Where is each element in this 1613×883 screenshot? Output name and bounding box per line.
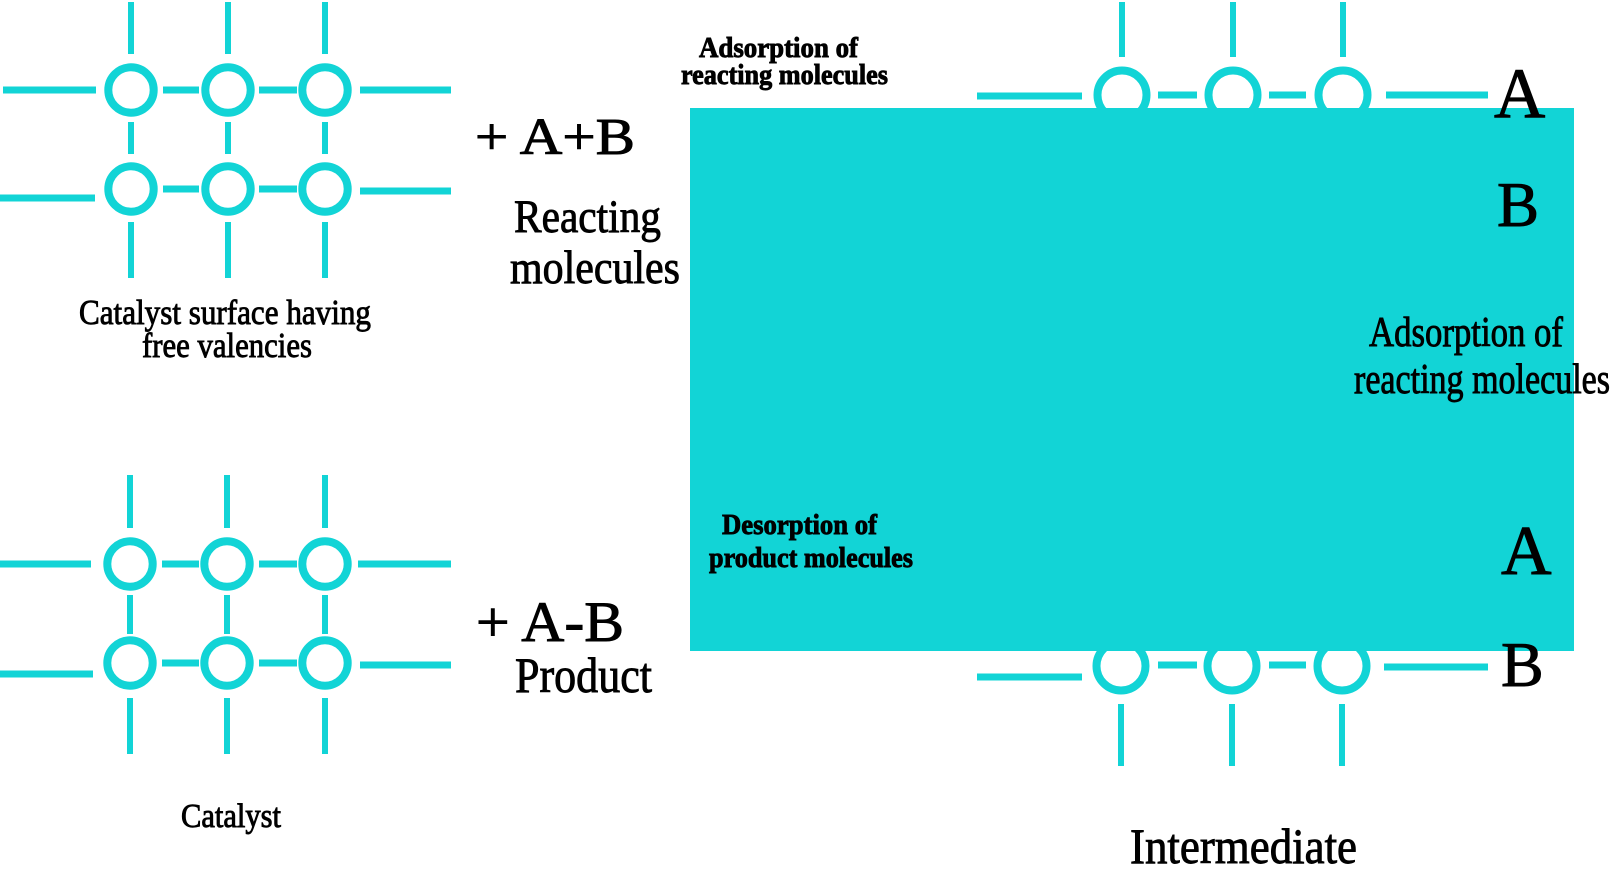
bottom-left lattice: top vertical bonds	[127, 475, 133, 528]
svg-text:+ A-B: + A-B	[476, 591, 624, 654]
intermediate slab rectangle	[690, 108, 1574, 651]
svg-text:Catalyst: Catalyst	[181, 798, 281, 835]
top-left lattice: top vertical bonds	[128, 2, 134, 54]
bottom-left lattice: bottom vertical bonds	[127, 698, 133, 754]
top-right lattice: horizontal bonds	[977, 93, 1082, 100]
svg-text:B: B	[1497, 170, 1539, 240]
top-left lattice: row2 horizontal bonds	[0, 195, 95, 202]
bottom-left lattice: row1 horizontal bonds	[0, 561, 91, 568]
bottom-left lattice: atoms row1	[107, 541, 347, 685]
bottom-left lattice: atoms row2	[107, 640, 152, 685]
bottom-left lattice: middle vertical bonds	[127, 595, 133, 634]
top-left lattice: bottom vertical bonds	[128, 222, 134, 278]
svg-text:+ A+B: + A+B	[475, 109, 635, 166]
svg-text:Desorption of: Desorption of	[722, 509, 877, 541]
bottom-right lattice: horizontal bonds	[977, 674, 1082, 681]
top-left lattice: middle vertical bonds	[128, 122, 134, 154]
svg-text:product molecules: product molecules	[709, 542, 913, 574]
svg-text:free valencies: free valencies	[142, 326, 312, 365]
top-left lattice: atoms row1	[108, 67, 347, 211]
svg-text:B: B	[1501, 629, 1544, 700]
svg-text:Adsorption of: Adsorption of	[1369, 310, 1563, 356]
bottom-left lattice: row2 horizontal bonds	[0, 671, 93, 678]
top-right lattice: atoms	[1098, 71, 1368, 120]
bottom-right lattice: atoms	[1097, 642, 1367, 691]
svg-text:reacting molecules: reacting molecules	[681, 59, 888, 91]
svg-text:A: A	[1494, 55, 1545, 133]
svg-text:Reacting: Reacting	[514, 191, 661, 243]
svg-text:molecules: molecules	[510, 242, 680, 294]
top-left lattice: atoms row2	[108, 166, 153, 211]
top-right lattice: vertical bonds	[1119, 2, 1125, 57]
svg-text:A: A	[1501, 513, 1552, 590]
top-left lattice: row1 horizontal bonds	[3, 87, 96, 94]
svg-text:reacting molecules: reacting molecules	[1354, 357, 1610, 403]
svg-text:Product: Product	[515, 647, 652, 703]
svg-text:Intermediate: Intermediate	[1130, 818, 1357, 874]
bottom-right lattice: vertical bonds	[1118, 704, 1124, 766]
